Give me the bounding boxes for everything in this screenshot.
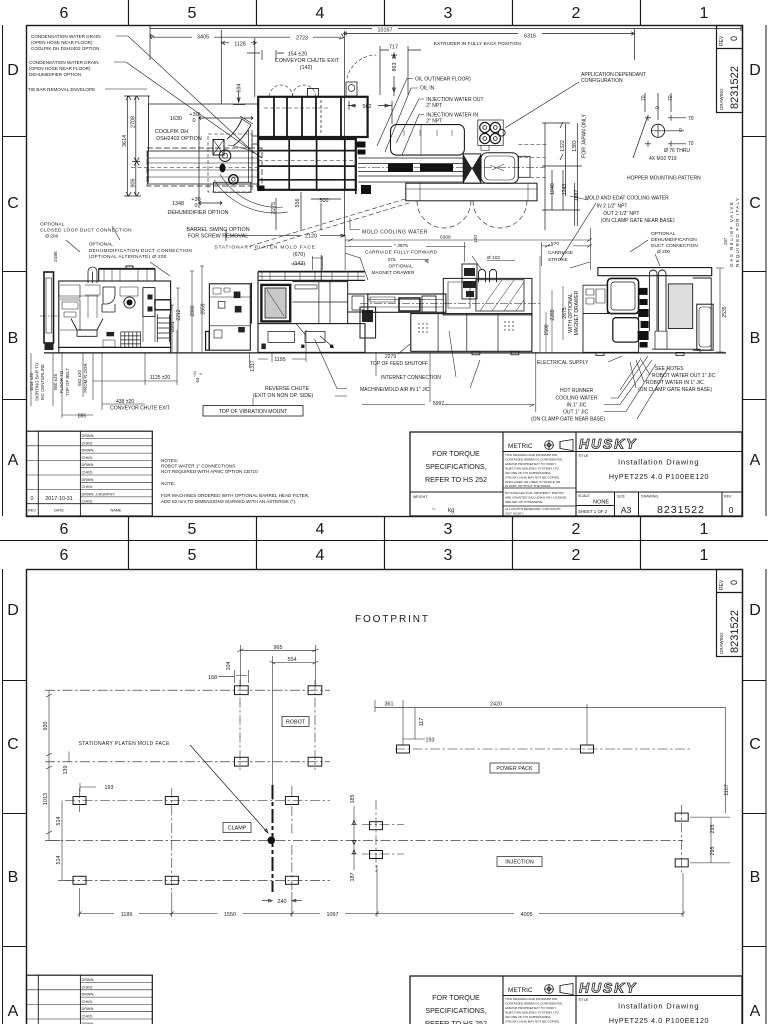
svg-text:CARRIAGE: CARRIAGE	[548, 250, 573, 256]
svg-text:ROBOT WATER IN 1" JIC: ROBOT WATER IN 1" JIC	[646, 380, 704, 386]
svg-text:(EXIT ON NON OP. SIDE): (EXIT ON NON OP. SIDE)	[253, 393, 314, 399]
svg-text:438 ±20: 438 ±20	[116, 399, 134, 405]
svg-text:965: 965	[274, 645, 283, 651]
svg-text:OUT 1" JIC: OUT 1" JIC	[563, 410, 589, 416]
svg-text:MOLD COOLING WATER: MOLD COOLING WATER	[362, 230, 428, 236]
svg-text:STATIONARY PLATEN MOLD FACE: STATIONARY PLATEN MOLD FACE	[79, 741, 171, 747]
svg-text:3: 3	[444, 521, 453, 538]
svg-text:70: 70	[688, 116, 694, 122]
svg-text:NOTE:: NOTE:	[161, 481, 175, 486]
svg-text:BARREL SWING OPTION: BARREL SWING OPTION	[186, 227, 249, 233]
svg-text:5997: 5997	[433, 401, 444, 407]
svg-text:(ON CLAMP GATE NEAR BASE): (ON CLAMP GATE NEAR BASE)	[638, 387, 712, 393]
svg-text:1013: 1013	[43, 793, 49, 805]
svg-text:1550: 1550	[224, 912, 236, 918]
svg-text:REV: REV	[719, 579, 725, 590]
svg-text:CONVEYOR CHUTE EXIT: CONVEYOR CHUTE EXIT	[275, 58, 340, 64]
svg-text:554: 554	[288, 657, 297, 663]
svg-text:ROBOT WATER 1" CONNECTIONS: ROBOT WATER 1" CONNECTIONS	[161, 464, 235, 469]
svg-text:4: 4	[316, 5, 325, 22]
svg-text:(142): (142)	[300, 65, 313, 71]
svg-text:2800: 2800	[190, 305, 196, 316]
svg-text:+34: +34	[193, 371, 197, 377]
svg-text:6316: 6316	[524, 34, 536, 40]
svg-text:1167: 1167	[724, 784, 730, 796]
svg-text:TOP OF FEED SHUTOFF: TOP OF FEED SHUTOFF	[370, 361, 428, 367]
svg-text:1383: 1383	[572, 140, 578, 152]
svg-text:CONDENSATION WATER DRAIN: CONDENSATION WATER DRAIN	[31, 34, 101, 39]
svg-text:2486: 2486	[53, 251, 59, 262]
svg-text:TOP OF VIBRATION MOUNT: TOP OF VIBRATION MOUNT	[219, 409, 288, 415]
svg-text:CONDENSATION WATER DRAIN: CONDENSATION WATER DRAIN	[29, 60, 99, 65]
svg-text:257: 257	[723, 237, 728, 245]
svg-text:552 ±20: 552 ±20	[77, 370, 82, 386]
svg-text:4X M10 ∇19: 4X M10 ∇19	[649, 156, 677, 162]
svg-text:3: 3	[444, 547, 453, 564]
svg-text:2: 2	[572, 521, 581, 538]
svg-text:TOP OF BELT: TOP OF BELT	[65, 368, 70, 396]
svg-text:8231522: 8231522	[729, 610, 741, 653]
svg-text:2: 2	[572, 547, 581, 564]
svg-text:361: 361	[385, 702, 394, 708]
svg-text:500: 500	[320, 198, 329, 204]
svg-text:2279: 2279	[385, 354, 396, 360]
svg-text:906: 906	[131, 179, 137, 188]
svg-text:154 ±20: 154 ±20	[288, 52, 307, 58]
svg-text:514: 514	[56, 856, 62, 865]
svg-text:DUCT CONNECTION: DUCT CONNECTION	[651, 243, 698, 249]
svg-text:1317: 1317	[250, 360, 256, 371]
svg-text:REVERSE CHUTE: REVERSE CHUTE	[265, 386, 310, 392]
svg-text:FOR SCREW REMOVAL: FOR SCREW REMOVAL	[188, 234, 248, 240]
svg-text:70: 70	[641, 95, 647, 101]
svg-text:1500: 1500	[544, 324, 550, 335]
svg-text:Ø 76 THRU: Ø 76 THRU	[664, 148, 690, 154]
svg-text:5: 5	[188, 547, 197, 564]
svg-text:2535: 2535	[722, 306, 728, 317]
svg-text:STATIONARY PLATEN MOLD FACE: STATIONARY PLATEN MOLD FACE	[214, 245, 315, 251]
svg-text:3405: 3405	[197, 35, 209, 41]
svg-text:1: 1	[700, 547, 709, 564]
svg-text:MAGNET DRAWER: MAGNET DRAWER	[574, 290, 580, 335]
svg-text:2: 2	[572, 5, 581, 22]
svg-text:4: 4	[316, 521, 325, 538]
svg-text:COOLING WATER: COOLING WATER	[556, 396, 598, 402]
svg-text:2289: 2289	[550, 309, 556, 320]
svg-text:B: B	[8, 869, 19, 886]
svg-text:6: 6	[60, 521, 69, 538]
svg-text:6: 6	[60, 547, 69, 564]
svg-text:(ON CLAMP GATE NEAR BASE): (ON CLAMP GATE NEAR BASE)	[531, 417, 605, 423]
svg-text:C: C	[749, 195, 761, 212]
svg-text:1125 ±20: 1125 ±20	[150, 375, 171, 381]
svg-text:INJECTION: INJECTION	[505, 860, 534, 866]
svg-text:MACHINE/MOLD AIR IN 1" JIC: MACHINE/MOLD AIR IN 1" JIC	[360, 387, 430, 393]
svg-text:295: 295	[710, 825, 716, 834]
svg-text:1014 ±20: 1014 ±20	[29, 372, 34, 391]
svg-text:(142): (142)	[293, 261, 305, 267]
svg-text:2120: 2120	[305, 234, 317, 240]
svg-text:1: 1	[700, 521, 709, 538]
svg-text:OIL OUT(NEAR FLOOR): OIL OUT(NEAR FLOOR)	[415, 77, 471, 83]
svg-text:4005: 4005	[521, 912, 533, 918]
svg-text:A: A	[8, 1003, 19, 1020]
svg-text:POWER PACK: POWER PACK	[496, 766, 533, 772]
svg-text:1601: 1601	[170, 321, 176, 332]
svg-text:A: A	[750, 1003, 761, 1020]
svg-text:NOT REQUIRED WITH APMC OPTION: NOT REQUIRED WITH APMC OPTION CB710	[161, 469, 258, 474]
svg-text:694: 694	[237, 84, 243, 93]
svg-text:ROBOT: ROBOT	[286, 720, 306, 726]
svg-text:295: 295	[710, 847, 716, 856]
svg-text:187: 187	[350, 873, 356, 882]
svg-text:3614: 3614	[122, 135, 128, 147]
svg-text:240: 240	[278, 899, 287, 905]
svg-text:1128: 1128	[234, 41, 246, 47]
svg-text:850 ±25: 850 ±25	[53, 374, 58, 390]
svg-text:CARRIAGE FULLY FORWARD: CARRIAGE FULLY FORWARD	[365, 250, 438, 256]
svg-text:OPTIONAL: OPTIONAL	[89, 242, 114, 248]
svg-text:168: 168	[208, 675, 217, 681]
svg-text:2723: 2723	[296, 35, 308, 41]
svg-text:MOLD AND EDAT COOLING WATER: MOLD AND EDAT COOLING WATER	[585, 196, 669, 202]
svg-text:FOOTPRINT: FOOTPRINT	[355, 614, 430, 625]
svg-text:C: C	[7, 736, 19, 753]
svg-text:117: 117	[419, 718, 425, 727]
svg-text:FOR MACHINES ORDERED WITH OPTI: FOR MACHINES ORDERED WITH OPTIONAL BARRE…	[161, 493, 309, 498]
svg-text:DEHUMIDIFICATION: DEHUMIDIFICATION	[651, 237, 697, 243]
svg-text:1189: 1189	[121, 912, 133, 918]
svg-text:TIE BAR REMOVAL ENVELOPE: TIE BAR REMOVAL ENVELOPE	[28, 87, 95, 92]
svg-text:C: C	[749, 736, 761, 753]
svg-text:1322: 1322	[560, 140, 566, 152]
svg-text:REV: REV	[719, 35, 725, 46]
svg-text:B: B	[750, 869, 761, 886]
svg-text:SEE NOTES: SEE NOTES	[655, 366, 684, 372]
svg-text:ADD 50 mm TO DIMENSIONS MARKED: ADD 50 mm TO DIMENSIONS MARKED WITH AN A…	[161, 499, 296, 504]
svg-text:2708: 2708	[131, 116, 137, 128]
svg-text:1630: 1630	[170, 116, 182, 122]
svg-text:2559: 2559	[201, 303, 207, 314]
svg-text:B: B	[8, 330, 19, 347]
svg-text:193: 193	[426, 738, 435, 744]
svg-text:HOPPER MOUNTING PATTERN: HOPPER MOUNTING PATTERN	[627, 176, 701, 182]
svg-text:MC CENTERLINE: MC CENTERLINE	[40, 364, 45, 400]
svg-text:185: 185	[350, 795, 356, 804]
svg-text:D: D	[7, 602, 19, 619]
svg-text:70: 70	[688, 141, 694, 147]
svg-text:CLOSED LOOP DUCT CONNECTION: CLOSED LOOP DUCT CONNECTION	[40, 227, 132, 233]
svg-text:1: 1	[700, 5, 709, 22]
svg-text:OUT 2 1/2" NPT: OUT 2 1/2" NPT	[603, 211, 639, 217]
svg-text:FLOOR TO: FLOOR TO	[59, 370, 64, 393]
svg-text:556: 556	[295, 199, 301, 208]
svg-text:104: 104	[226, 662, 232, 671]
svg-text:OPTIONAL: OPTIONAL	[40, 222, 65, 228]
svg-text:FROM FLOOR: FROM FLOOR	[83, 363, 88, 392]
svg-text:(670): (670)	[293, 252, 305, 258]
svg-text:(ON CLAMP GATE NEAR BASE): (ON CLAMP GATE NEAR BASE)	[601, 218, 675, 224]
svg-text:STROKE: STROKE	[548, 257, 568, 263]
svg-text:DRAWING: DRAWING	[719, 88, 724, 110]
svg-text:B: B	[750, 330, 761, 347]
svg-text:0: 0	[655, 106, 661, 109]
svg-text:MAGNET DRAWER: MAGNET DRAWER	[372, 270, 415, 276]
svg-text:COOLPIK DH DSH2402 OPTION: COOLPIK DH DSH2402 OPTION	[31, 46, 99, 51]
svg-text:OPTIONAL: OPTIONAL	[651, 231, 676, 237]
svg-text:(OPEN HOSE NEAR FLOOR): (OPEN HOSE NEAR FLOOR)	[29, 66, 91, 71]
svg-text:139: 139	[63, 766, 69, 775]
svg-text:514: 514	[56, 817, 62, 826]
svg-text:NOTES:: NOTES:	[161, 458, 178, 463]
svg-text:1040: 1040	[550, 183, 556, 195]
svg-text:4: 4	[316, 547, 325, 564]
svg-text:IN 1" JIC: IN 1" JIC	[567, 403, 587, 409]
svg-text:D: D	[749, 62, 761, 79]
svg-text:CLAMP: CLAMP	[228, 826, 247, 832]
svg-text:A: A	[750, 452, 761, 469]
svg-text:Ø 200: Ø 200	[45, 234, 58, 240]
svg-text:3: 3	[444, 5, 453, 22]
svg-text:REQUIRED FOR ITALY: REQUIRED FOR ITALY	[735, 197, 740, 267]
svg-text:5: 5	[188, 5, 197, 22]
svg-text:(OPEN HOSE NEAR FLOOR): (OPEN HOSE NEAR FLOOR)	[31, 40, 93, 45]
svg-text:ELECTRICAL SUPPLY: ELECTRICAL SUPPLY	[537, 360, 589, 366]
svg-text:A: A	[8, 452, 19, 469]
svg-text:CONFIGURATION: CONFIGURATION	[581, 78, 623, 84]
svg-text:6: 6	[60, 5, 69, 22]
svg-text:IN 2 1/2" NPT: IN 2 1/2" NPT	[597, 204, 628, 210]
svg-text:1348: 1348	[172, 201, 184, 207]
svg-text:5: 5	[188, 521, 197, 538]
svg-text:OPTIONAL: OPTIONAL	[389, 264, 414, 270]
svg-text:DEHUMIDIFICATION DUCT CONNECTI: DEHUMIDIFICATION DUCT CONNECTION	[89, 248, 193, 254]
svg-text:0: 0	[729, 580, 739, 585]
svg-text:DEHUMIDIFIER OPTION: DEHUMIDIFIER OPTION	[167, 210, 228, 216]
svg-text:1243: 1243	[562, 184, 568, 196]
svg-text:0: 0	[199, 373, 203, 375]
svg-text:193: 193	[105, 785, 114, 791]
svg-text:120: 120	[473, 235, 479, 243]
svg-text:0: 0	[679, 128, 682, 134]
svg-text:10167: 10167	[378, 28, 393, 34]
svg-text:0: 0	[193, 118, 196, 124]
svg-text:276: 276	[388, 257, 396, 263]
svg-text:DEHUMIDIFIER OPTION: DEHUMIDIFIER OPTION	[29, 72, 81, 77]
svg-text:6308: 6308	[440, 235, 451, 241]
svg-text:895: 895	[78, 414, 87, 420]
svg-text:8231522: 8231522	[729, 66, 741, 109]
svg-text:D: D	[749, 602, 761, 619]
svg-text:D: D	[7, 62, 19, 79]
svg-text:863: 863	[392, 63, 398, 72]
svg-text:OIL IN: OIL IN	[420, 86, 435, 92]
svg-text:1195: 1195	[274, 357, 285, 363]
svg-text:INTERNET CONNECTION: INTERNET CONNECTION	[381, 375, 441, 381]
svg-text:HOT RUNNER: HOT RUNNER	[560, 388, 594, 394]
svg-text:* 3875: * 3875	[394, 243, 408, 249]
svg-text:0: 0	[729, 36, 739, 41]
svg-text:2" NPT: 2" NPT	[426, 103, 442, 109]
svg-text:DRAWING: DRAWING	[719, 632, 724, 654]
svg-text:717: 717	[389, 45, 398, 51]
svg-text:1097: 1097	[327, 912, 339, 918]
svg-text:Ø 102: Ø 102	[487, 255, 500, 261]
svg-text:2" NPT: 2" NPT	[426, 118, 442, 124]
svg-text:2275: 2275	[271, 202, 277, 214]
svg-text:Ø 200: Ø 200	[657, 249, 670, 255]
svg-text:EXTRUDER IN FULLY BACK POSITIO: EXTRUDER IN FULLY BACK POSITION	[434, 41, 522, 47]
svg-text:CONVEYOR CHUTE EXIT: CONVEYOR CHUTE EXIT	[110, 406, 170, 412]
svg-text:C: C	[7, 195, 19, 212]
svg-text:0: 0	[195, 203, 198, 209]
svg-text:SKIRTING BAR TO: SKIRTING BAR TO	[35, 362, 40, 401]
svg-text:2212: 2212	[176, 309, 182, 320]
svg-text:DSH2402 OPTION: DSH2402 OPTION	[156, 136, 202, 142]
svg-text:FOR JAPAN ONLY: FOR JAPAN ONLY	[582, 114, 588, 158]
svg-text:COOLPIK DH: COOLPIK DH	[155, 129, 188, 135]
svg-text:1887: 1887	[574, 190, 580, 202]
svg-text:2420: 2420	[490, 702, 502, 708]
svg-text:70: 70	[668, 95, 674, 101]
svg-text:GAS RELIEF VALVE: GAS RELIEF VALVE	[729, 201, 734, 267]
svg-text:(OPTIONAL ALTERNATE) Ø 200: (OPTIONAL ALTERNATE) Ø 200	[89, 254, 167, 260]
svg-text:930: 930	[43, 722, 49, 731]
